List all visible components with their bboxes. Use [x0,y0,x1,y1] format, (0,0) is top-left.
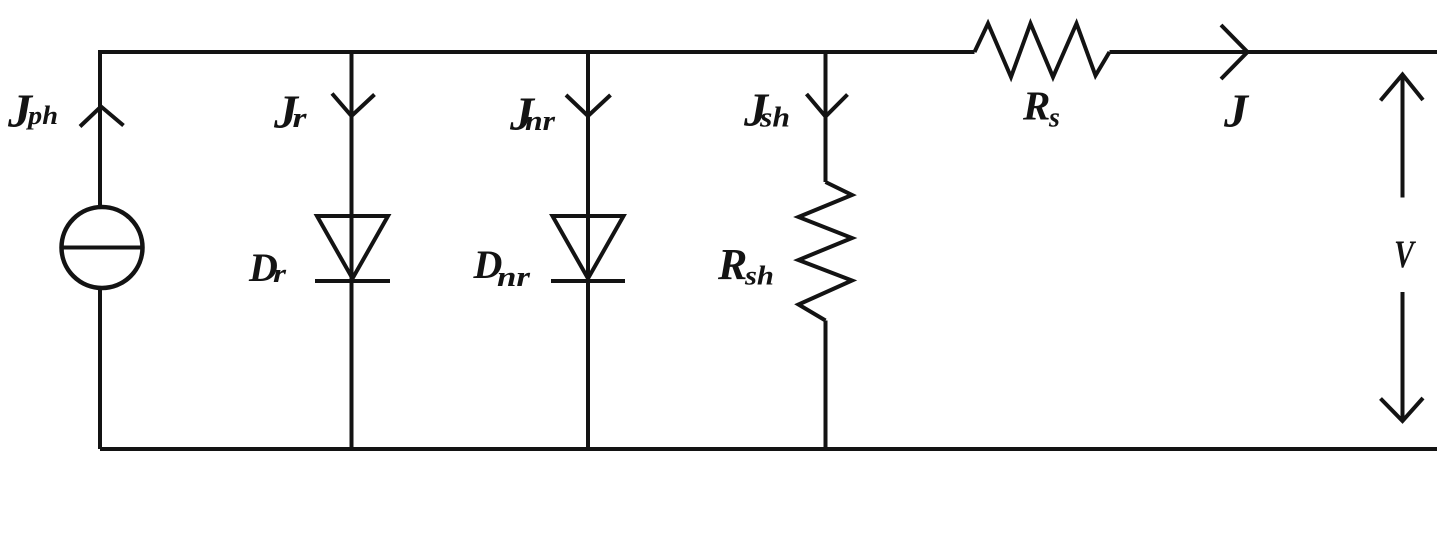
current source Jph circle [62,207,143,288]
node Jph arrow [80,107,124,127]
wire left branch lower [98,288,102,450]
resistor Rs [975,24,1110,78]
svg-text:R: R [717,240,747,289]
svg-text:r: r [293,103,308,134]
node Jr arrow [332,94,375,117]
svg-text:ph: ph [26,101,58,130]
wire Rsh branch lower [824,321,828,450]
wire top rail right segment [1110,50,1438,54]
diode Dnr triangle [553,216,624,279]
svg-text:sh: sh [759,103,790,134]
wire Dnr branch [586,50,590,449]
node Jnr arrow [566,95,611,116]
svg-text:s: s [1048,103,1060,134]
current source bar [62,246,142,250]
resistor Rsh [799,182,853,321]
wire left branch upper [98,50,102,208]
wire bottom rail [100,447,1437,451]
svg-text:nr: nr [497,262,531,293]
node V down arrow [1381,292,1424,421]
wire top rail left segment [100,50,975,54]
node J arrow [1221,25,1248,79]
svg-text:r: r [273,259,287,288]
diode Dr triangle [317,216,388,279]
diode Dr cathode bar [315,279,390,283]
diode Dnr cathode bar [551,279,625,283]
svg-text:R: R [1022,83,1050,129]
svg-text:sh: sh [744,261,774,291]
wire Rsh branch upper [824,50,828,182]
node V up arrow [1381,75,1424,198]
node Jsh arrow [807,94,848,117]
svg-text:nr: nr [525,106,556,137]
svg-text:J: J [1223,85,1250,138]
wire Dr branch [350,50,354,449]
svg-text:V: V [1394,233,1416,276]
